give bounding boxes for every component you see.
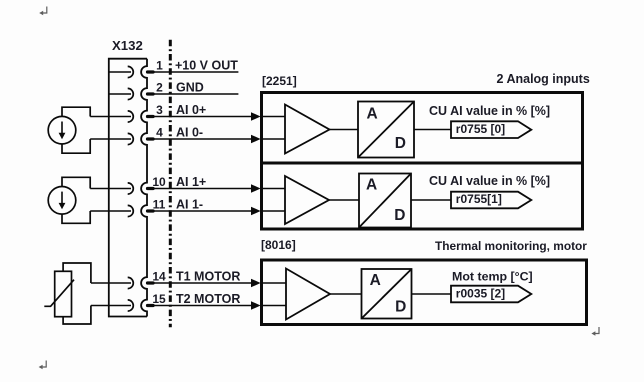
svg-text:Mot temp [°C]: Mot temp [°C] bbox=[452, 270, 533, 284]
svg-text:+10 V OUT: +10 V OUT bbox=[175, 58, 238, 72]
svg-text:AI 0-: AI 0- bbox=[176, 125, 203, 139]
svg-text:AI 1+: AI 1+ bbox=[176, 175, 206, 189]
svg-text:14: 14 bbox=[152, 269, 166, 283]
svg-text:T2 MOTOR: T2 MOTOR bbox=[176, 292, 240, 306]
svg-text:A: A bbox=[370, 272, 381, 289]
svg-text:3: 3 bbox=[156, 103, 163, 117]
svg-text:2 Analog inputs: 2 Analog inputs bbox=[497, 72, 590, 86]
svg-text:A: A bbox=[367, 105, 378, 122]
svg-text:AI 1-: AI 1- bbox=[176, 197, 203, 211]
svg-text:r0755 [0]: r0755 [0] bbox=[456, 122, 505, 136]
svg-text:1: 1 bbox=[156, 58, 163, 72]
svg-text:D: D bbox=[394, 207, 405, 224]
svg-text:15: 15 bbox=[152, 292, 166, 306]
svg-text:4: 4 bbox=[156, 125, 163, 139]
svg-text:[2251]: [2251] bbox=[262, 74, 297, 88]
svg-text:CU AI value in % [%]: CU AI value in % [%] bbox=[429, 104, 550, 118]
svg-text:A: A bbox=[366, 177, 377, 194]
svg-text:GND: GND bbox=[176, 80, 204, 94]
svg-text:2: 2 bbox=[156, 80, 163, 94]
svg-text:T1 MOTOR: T1 MOTOR bbox=[176, 269, 240, 283]
svg-text:r0035 [2]: r0035 [2] bbox=[456, 286, 505, 300]
svg-text:11: 11 bbox=[153, 197, 166, 211]
svg-text:D: D bbox=[395, 299, 406, 316]
svg-text:[8016]: [8016] bbox=[261, 238, 296, 252]
svg-text:X132: X132 bbox=[112, 38, 143, 53]
svg-text:10: 10 bbox=[152, 175, 166, 189]
svg-text:AI 0+: AI 0+ bbox=[176, 103, 206, 117]
svg-text:r0755[1]: r0755[1] bbox=[456, 192, 502, 206]
svg-text:Thermal monitoring, motor: Thermal monitoring, motor bbox=[435, 239, 587, 253]
svg-text:CU AI value in % [%]: CU AI value in % [%] bbox=[429, 174, 550, 188]
svg-text:D: D bbox=[395, 135, 406, 152]
